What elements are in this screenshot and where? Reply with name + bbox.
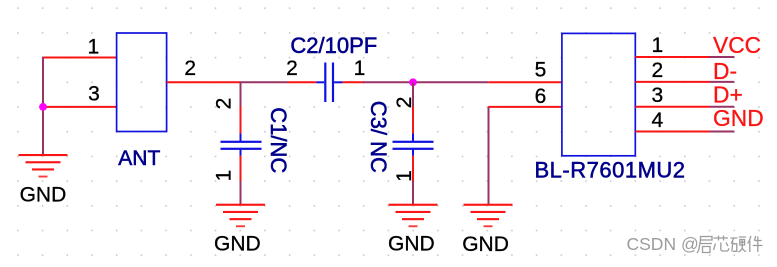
svg-text:1: 1 xyxy=(652,34,664,57)
module pin 3 xyxy=(635,84,709,107)
wire: branch down to C1 xyxy=(240,82,242,107)
ground (C3) xyxy=(389,204,438,228)
svg-text:1: 1 xyxy=(213,170,236,182)
svg-text:D+: D+ xyxy=(713,82,743,108)
GND label (left) xyxy=(20,183,67,206)
svg-text:C3/ NC: C3/ NC xyxy=(366,101,391,173)
svg-text:ANT: ANT xyxy=(118,147,160,170)
svg-text:GND: GND xyxy=(462,233,509,256)
net label GND (red) xyxy=(713,105,764,131)
svg-text:4: 4 xyxy=(652,109,664,132)
GND label (C1) xyxy=(214,232,261,255)
svg-text:BL-R7601MU2: BL-R7601MU2 xyxy=(535,157,686,182)
capacitor C1 (NC) xyxy=(213,98,291,182)
junction node B xyxy=(409,78,417,86)
module U? BL-R7601MU2 body xyxy=(535,33,686,182)
watermark chinese characters xyxy=(697,236,763,254)
wire: branch down to C3 xyxy=(412,82,414,107)
svg-text:3: 3 xyxy=(652,84,664,107)
module pin 2 xyxy=(635,59,709,82)
wire: pin2 to D- port xyxy=(710,81,735,83)
芯 xyxy=(714,236,729,252)
svg-text:CSDN @: CSDN @ xyxy=(627,234,699,254)
svg-text:6: 6 xyxy=(535,85,547,108)
svg-text:C1/NC: C1/NC xyxy=(266,107,291,173)
wire: pin1 to VCC port xyxy=(710,56,735,58)
svg-text:5: 5 xyxy=(535,58,547,81)
ANT pin 1 xyxy=(44,35,117,58)
硬 xyxy=(731,237,747,252)
module pin 5 xyxy=(488,58,562,82)
svg-text:GND: GND xyxy=(388,232,435,255)
svg-text:2: 2 xyxy=(184,57,196,80)
svg-text:C2/10PF: C2/10PF xyxy=(290,33,377,58)
wire: ANT pin2 to C2 pin2 xyxy=(240,81,288,83)
svg-text:VCC: VCC xyxy=(713,32,761,58)
module pin 4 xyxy=(635,109,709,132)
wire: C2 pin1 to module pin5 xyxy=(363,81,488,83)
net label D+ xyxy=(713,82,743,108)
svg-text:2: 2 xyxy=(393,97,416,109)
svg-text:2: 2 xyxy=(213,98,236,110)
svg-text:GND: GND xyxy=(214,232,261,255)
GND label (C3) xyxy=(388,232,435,255)
wire: pin6 down to ground xyxy=(488,107,490,205)
wire: pin4 to GND port xyxy=(710,131,735,133)
capacitor C3 (NC) xyxy=(366,97,434,182)
ground (pin6) xyxy=(464,204,513,228)
svg-text:1: 1 xyxy=(354,57,366,80)
net label D- xyxy=(713,58,737,84)
启 xyxy=(697,237,712,254)
svg-text:GND: GND xyxy=(713,105,764,131)
capacitor C2 xyxy=(286,57,365,102)
wire: net A vertical from ANT pin1 down to ground xyxy=(42,57,44,156)
junction node A xyxy=(39,103,47,111)
svg-text:2: 2 xyxy=(286,57,298,80)
net label VCC xyxy=(713,32,761,58)
ground (left, net A) xyxy=(19,154,68,178)
ground (C1) xyxy=(216,204,265,228)
svg-text:D-: D- xyxy=(713,58,737,84)
ANT pin 3 xyxy=(44,83,117,107)
capacitor C2 value label xyxy=(290,33,377,58)
svg-text:GND: GND xyxy=(20,183,67,206)
svg-text:1: 1 xyxy=(393,170,416,182)
wire: C1 pin1 to ground xyxy=(240,181,242,205)
ANT pin 2 xyxy=(167,57,241,82)
module pin 1 xyxy=(635,34,709,57)
件 xyxy=(748,236,763,252)
svg-text:3: 3 xyxy=(88,83,100,106)
antenna U? ANT body xyxy=(117,33,167,170)
svg-text:1: 1 xyxy=(87,35,99,58)
GND label (pin6 ground) xyxy=(462,233,509,256)
watermark CSDN xyxy=(627,234,699,254)
svg-text:2: 2 xyxy=(652,59,664,82)
wire: C3 pin1 to ground xyxy=(412,181,414,205)
module pin 6 xyxy=(488,85,562,108)
wire: pin3 to D+ port xyxy=(710,106,735,108)
